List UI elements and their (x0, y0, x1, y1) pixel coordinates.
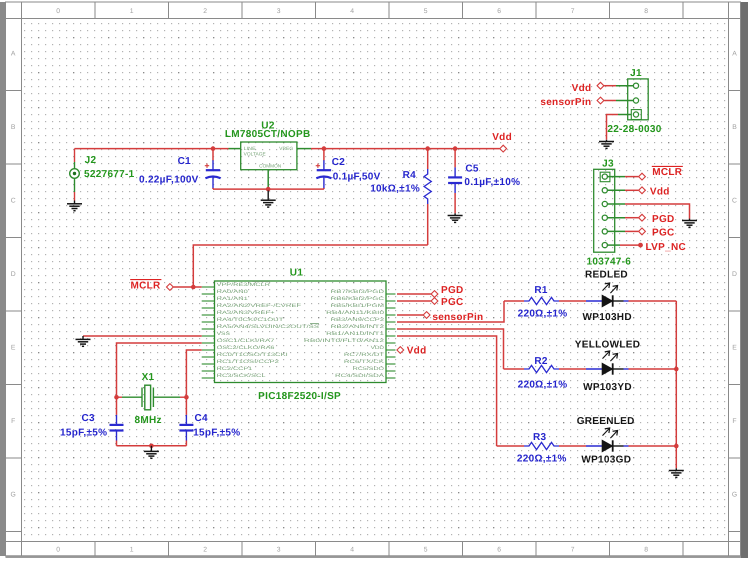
net label sensorPin U1 (423, 312, 430, 319)
capacitor C5 (454, 149, 456, 168)
wire R1 left (504, 300, 524, 302)
node LED3 rail junction (674, 444, 679, 449)
svg-text:RA4/T0CKI/C1OUT: RA4/T0CKI/C1OUT (217, 317, 284, 323)
wire J1 pin3 to ground (618, 114, 631, 116)
svg-text:RA3/AN3/VREF+: RA3/AN3/VREF+ (217, 310, 275, 316)
wire J3 pin4 PGD (608, 217, 625, 219)
J3 pin1 square (600, 172, 610, 182)
svg-text:WP103YD: WP103YD (583, 382, 632, 393)
LED LED3 green (586, 428, 629, 452)
ground J1 (599, 140, 614, 149)
wire LED1 to rail (629, 300, 677, 302)
svg-text:VREG: VREG (279, 146, 293, 151)
svg-text:RC5/SDO: RC5/SDO (353, 366, 385, 372)
svg-text:OSC2/CLKO/RA6: OSC2/CLKO/RA6 (217, 345, 275, 351)
svg-text:C: C (732, 198, 737, 205)
svg-text:PGD: PGD (441, 285, 464, 296)
ground J2 (67, 201, 82, 211)
svg-text:C1: C1 (178, 156, 192, 167)
wire LED2 to rail (629, 368, 677, 370)
svg-text:15pF,±5%: 15pF,±5% (60, 427, 107, 438)
svg-text:R1: R1 (534, 285, 548, 296)
svg-text:VDD: VDD (371, 345, 385, 351)
J3 pin 3 (602, 201, 607, 206)
node Vdd junction C1 (211, 146, 216, 151)
wire J1 pin2 to sensorPin (616, 100, 633, 102)
svg-text:RA1/AN1: RA1/AN1 (217, 296, 249, 302)
J3 pin 4 (602, 215, 607, 220)
svg-text:COMMON: COMMON (259, 163, 281, 168)
resistor R4 (427, 149, 429, 169)
op-amp U1 PIC box (215, 281, 387, 383)
svg-text:7: 7 (571, 8, 575, 15)
svg-text:PGC: PGC (652, 228, 675, 239)
J1 pin 3 square (631, 110, 641, 120)
ground U2 (261, 191, 276, 208)
svg-text:RB4/AN11/KBI0: RB4/AN11/KBI0 (326, 310, 384, 316)
net label MCLR U1 (167, 284, 174, 291)
svg-text:15pF,±5%: 15pF,±5% (193, 427, 240, 438)
svg-text:GREENLED: GREENLED (577, 416, 635, 427)
J3 pin 2 (602, 188, 607, 193)
svg-text:F: F (11, 418, 15, 425)
wire sensorPin (397, 314, 423, 316)
svg-text:RC6/TX/CK: RC6/TX/CK (344, 359, 385, 365)
wire J3 pin1 to MCLR (608, 176, 625, 178)
svg-text:E: E (11, 345, 16, 352)
svg-text:6: 6 (497, 547, 501, 554)
svg-text:YELLOWLED: YELLOWLED (575, 339, 640, 350)
wire LED common rail (675, 301, 677, 468)
svg-text:LM7805CT/NOPB: LM7805CT/NOPB (225, 129, 311, 140)
svg-text:0: 0 (56, 8, 60, 15)
resistor R1 (524, 297, 559, 304)
svg-text:J1: J1 (630, 68, 642, 79)
wire R3 left (497, 445, 524, 447)
svg-text:RB5/KBI1/PGM: RB5/KBI1/PGM (331, 303, 384, 309)
ground LED rail (669, 468, 684, 477)
svg-text:B: B (732, 124, 737, 131)
wire R2 to LED2 (559, 368, 586, 370)
svg-text:RB1/AN10/INT1: RB1/AN10/INT1 (326, 331, 384, 337)
wire U2 common (267, 170, 269, 189)
ground crystal (144, 446, 159, 459)
svg-text:RC3/SCK/SCL: RC3/SCK/SCL (217, 373, 266, 379)
svg-text:0: 0 (56, 547, 60, 554)
svg-text:2: 2 (203, 547, 207, 554)
svg-text:6: 6 (497, 8, 501, 15)
svg-text:RC7/RX/DT: RC7/RX/DT (344, 352, 384, 358)
wire PGC (397, 300, 431, 302)
svg-text:R3: R3 (533, 432, 547, 443)
svg-text:Vdd: Vdd (407, 346, 427, 357)
svg-text:7: 7 (571, 547, 575, 554)
svg-text:R4: R4 (403, 170, 417, 181)
wire MCLR to U1 pin1 (174, 286, 202, 288)
U1 right pin names (304, 289, 385, 379)
svg-text:LINE: LINE (244, 146, 256, 151)
svg-text:F: F (732, 418, 736, 425)
svg-text:RC1/T1OSI/CCP2: RC1/T1OSI/CCP2 (217, 359, 280, 365)
svg-text:8: 8 (644, 547, 648, 554)
svg-text:U1: U1 (290, 267, 304, 278)
svg-text:8: 8 (644, 8, 648, 15)
svg-text:J2: J2 (85, 155, 97, 166)
svg-text:C4: C4 (195, 413, 209, 424)
svg-text:8MHz: 8MHz (135, 415, 162, 426)
svg-text:220Ω,±1%: 220Ω,±1% (517, 453, 567, 464)
svg-text:220Ω,±1%: 220Ω,±1% (518, 379, 568, 390)
node crystal right junction (184, 395, 189, 400)
svg-text:VPP/RE3/MCLR: VPP/RE3/MCLR (217, 282, 271, 288)
wire LED3 to rail (629, 445, 677, 447)
ground J3 (682, 219, 697, 228)
capacitor C1 (212, 149, 214, 161)
svg-text:22-28-0030: 22-28-0030 (607, 124, 661, 135)
svg-text:sensorPin: sensorPin (540, 97, 591, 108)
wire Vdd rail left segment (75, 148, 229, 150)
wire RB1 to R3 (397, 336, 497, 446)
svg-text:X1: X1 (142, 372, 155, 383)
wire PGD (397, 293, 431, 295)
net label PGD U1 (431, 291, 438, 298)
net label sensorPin J1 (597, 97, 604, 104)
svg-text:VOLTAGE: VOLTAGE (244, 152, 266, 157)
svg-text:Vdd: Vdd (572, 83, 592, 94)
svg-text:4: 4 (350, 547, 354, 554)
svg-text:R2: R2 (534, 356, 548, 367)
wire OSC1 to crystal (117, 343, 202, 397)
J1 pin 2 (633, 98, 638, 103)
op-amp U2 LM7805 box (241, 142, 297, 170)
node Vdd junction C2 (322, 146, 327, 151)
svg-text:0.22µF,100V: 0.22µF,100V (139, 175, 199, 186)
wire J3 pin3 to ground (608, 203, 625, 205)
wire OSC2 to crystal (186, 350, 201, 397)
wire Vdd rail right segment (311, 148, 500, 150)
capacitor C2 (323, 149, 325, 161)
svg-text:J3: J3 (602, 159, 614, 170)
svg-text:A: A (11, 51, 16, 58)
wire U2 output pin stub (297, 148, 311, 150)
svg-text:VSS: VSS (217, 331, 230, 337)
svg-text:3: 3 (277, 547, 281, 554)
capacitor C3 (116, 397, 118, 415)
LED LED1 red (586, 283, 629, 307)
svg-text:RA5/AN4/SLVDIN/C2OUT/SS: RA5/AN4/SLVDIN/C2OUT/SS (217, 324, 319, 330)
svg-text:103747-6: 103747-6 (587, 256, 632, 267)
node Vdd junction R4 (425, 146, 430, 151)
U1 left pin names (217, 282, 319, 379)
svg-text:RC0/T1OSO/T13CKI: RC0/T1OSO/T13CKI (217, 352, 288, 358)
wire R4 to MCLR net (193, 245, 427, 287)
LED LED2 yellow (586, 351, 629, 375)
wire J3 pin2 to Vdd (608, 189, 625, 191)
wire R2 left (504, 368, 525, 370)
svg-text:5: 5 (424, 8, 428, 15)
J3 pin 6 (602, 243, 607, 248)
J3 pin 5 (602, 229, 607, 234)
svg-text:0.1µF,50V: 0.1µF,50V (333, 171, 381, 182)
svg-text:REDLED: REDLED (585, 269, 628, 280)
J3 pin 1 (602, 174, 607, 179)
svg-text:A: A (732, 51, 737, 58)
svg-text:3: 3 (277, 8, 281, 15)
svg-text:E: E (732, 345, 737, 352)
node Vdd junction C5 (453, 146, 458, 151)
svg-text:10kΩ,±1%: 10kΩ,±1% (370, 184, 420, 195)
svg-text:4: 4 (350, 8, 354, 15)
svg-text:C3: C3 (82, 413, 96, 424)
wire J1 pin1 to Vdd (616, 85, 633, 87)
svg-text:PIC18F2520-I/SP: PIC18F2520-I/SP (258, 391, 341, 402)
svg-text:Vdd: Vdd (492, 132, 512, 143)
wire R3 to LED3 (559, 445, 586, 447)
resistor R2 (524, 365, 559, 372)
svg-text:1: 1 (130, 8, 134, 15)
net label PGC U1 (431, 298, 438, 305)
svg-text:5227677-1: 5227677-1 (84, 169, 135, 180)
svg-text:C: C (11, 198, 16, 205)
svg-text:MCLR: MCLR (652, 167, 683, 178)
svg-text:D: D (732, 271, 737, 278)
svg-text:5: 5 (424, 547, 428, 554)
node crystal left junction (114, 395, 119, 400)
wire U2 input pin stub (229, 148, 241, 150)
svg-text:RC2/CCP1: RC2/CCP1 (217, 366, 253, 372)
svg-text:RA2/AN2/VREF-/CVREF: RA2/AN2/VREF-/CVREF (217, 303, 302, 309)
node crystal ground junction (149, 444, 154, 449)
svg-text:2: 2 (203, 8, 207, 15)
node MCLR junction (191, 285, 196, 290)
svg-text:D: D (11, 271, 16, 278)
connector J1 box (628, 79, 649, 120)
svg-text:0.1µF,±10%: 0.1µF,±10% (464, 177, 520, 188)
svg-text:RA0/AN0: RA0/AN0 (217, 289, 249, 295)
svg-text:MCLR: MCLR (131, 281, 162, 292)
svg-text:RB6/KBI2/PGC: RB6/KBI2/PGC (331, 296, 385, 302)
svg-text:RB7/KBI3/PGD: RB7/KBI3/PGD (331, 289, 385, 295)
crystal X1 (117, 385, 187, 410)
svg-text:G: G (11, 492, 16, 499)
svg-text:RC4/SDI/SDA: RC4/SDI/SDA (335, 373, 385, 379)
net label Vdd J1 (597, 82, 604, 89)
svg-text:RB3/AN9/CCP2: RB3/AN9/CCP2 (331, 317, 385, 323)
svg-text:B: B (11, 124, 16, 131)
node LED2 rail junction (674, 367, 679, 372)
node common junction (266, 187, 271, 192)
wire J3 pin5 PGC (608, 230, 625, 232)
svg-text:PGC: PGC (441, 297, 464, 308)
net label Vdd U1 (396, 349, 398, 351)
svg-text:WP103GD: WP103GD (581, 454, 631, 465)
svg-text:LVP_NC: LVP_NC (646, 242, 687, 253)
ground C5 (448, 213, 463, 222)
svg-text:Vdd: Vdd (650, 187, 670, 198)
wire RB2 to R2 (397, 329, 504, 369)
net label Vdd top (500, 145, 507, 152)
wire crystal ground rail (117, 445, 187, 447)
svg-text:1: 1 (130, 547, 134, 554)
svg-text:C2: C2 (332, 157, 346, 168)
connector J2 (70, 149, 80, 201)
svg-text:C5: C5 (465, 163, 479, 174)
connector J3 box (594, 169, 615, 252)
ground VSS (76, 336, 91, 346)
svg-text:RB0/INT0/FLT0/AN12: RB0/INT0/FLT0/AN12 (304, 338, 385, 344)
wire J3 pin6 LVP_NC (608, 244, 620, 246)
svg-text:WP103HD: WP103HD (583, 312, 632, 323)
U1 left pin stubs (202, 287, 215, 378)
svg-text:RB2/AN8/INT2: RB2/AN8/INT2 (331, 324, 385, 330)
svg-text:G: G (732, 492, 737, 499)
wire RB3 to R1 (397, 301, 504, 322)
J1 pin 1 (633, 83, 638, 88)
resistor R3 (524, 442, 559, 449)
svg-text:PGD: PGD (652, 214, 675, 225)
wire VSS to ground (83, 335, 202, 337)
U1 right pin stubs (386, 294, 396, 378)
svg-text:220Ω,±1%: 220Ω,±1% (518, 308, 568, 319)
svg-text:OSC1/CLKI/RA7: OSC1/CLKI/RA7 (217, 338, 275, 344)
wire R1 to LED1 (559, 300, 586, 302)
wire regulator ground rail (213, 188, 324, 190)
capacitor C4 (185, 397, 187, 415)
